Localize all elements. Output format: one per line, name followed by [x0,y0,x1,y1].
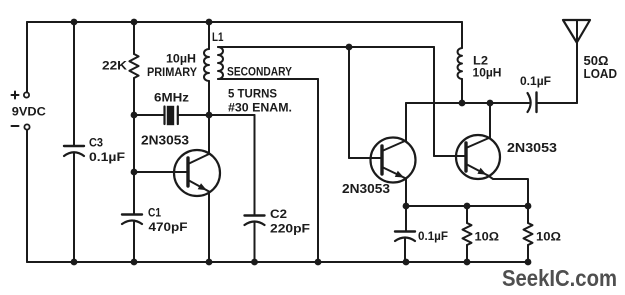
capacitor C4 0.1uF coupling [528,93,531,112]
junction top rail L1 [206,19,213,26]
junction top rail C3 [71,19,78,26]
svg-text:0.1µF: 0.1µF [520,74,551,88]
junction ground Q1 emitter [206,259,213,266]
junction ground C3 [71,259,78,266]
wire secondary bottom return [218,78,318,80]
svg-text:6MHz: 6MHz [154,91,189,105]
junction ground C5 [403,259,410,266]
svg-text:50Ω: 50Ω [584,54,609,68]
svg-text:470pF: 470pF [149,220,188,234]
junction ground 10 ohm second [525,259,532,266]
battery negative terminal [24,124,29,129]
wire left vertical from - terminal to ground rail [26,130,28,262]
wire collector node to C2 [209,114,255,116]
junction ground C2 [251,259,258,266]
capacitor C1 [122,213,142,215]
resistor 10 ohm second [527,206,529,223]
wire Q2 base feed [348,47,350,158]
transistor Q2 2N3053 [371,138,416,183]
wire top supply rail [27,21,462,23]
svg-text:10µH: 10µH [166,52,196,66]
junction crystal right collector node [206,112,213,119]
capacitor C5 0.1uF emitter bypass [405,206,407,231]
crystal 6MHz [134,114,165,116]
wire emitter rail [406,205,528,207]
junction ground 10 ohm first [464,259,471,266]
svg-text:9VDC: 9VDC [12,105,46,119]
wire bottom ground rail [27,261,528,263]
svg-text:2N3053: 2N3053 [141,134,189,148]
junction emitter rail middle [464,203,471,210]
capacitor C3 [73,22,75,146]
junction secondary top Q2 base [346,44,353,51]
junction top rail 22K [131,19,138,26]
wire Q3 base feed [433,47,435,156]
junction L2 bottom [459,100,466,107]
svg-text:C1: C1 [148,206,161,220]
junction Q1 base [131,169,138,176]
svg-text:10Ω: 10Ω [536,230,561,244]
wire left vertical to + terminal [26,22,28,92]
svg-text:SeekIC.com: SeekIC.com [502,265,617,291]
junction ground C1 [131,259,138,266]
wire secondary top to driver bases [218,46,434,48]
inductor L2 [461,22,463,48]
resistor 10 ohm first [466,206,468,223]
transformer L1 secondary winding [218,47,223,79]
svg-text:0.1µF: 0.1µF [89,150,125,164]
svg-text:C3: C3 [89,136,103,150]
junction emitter rail left [403,203,410,210]
svg-text:10µH: 10µH [473,66,502,80]
svg-text:2N3053: 2N3053 [507,141,557,155]
svg-text:2N3053: 2N3053 [342,182,390,196]
svg-text:LOAD: LOAD [584,67,618,81]
svg-text:SECONDARY: SECONDARY [227,65,292,79]
svg-text:#30 ENAM.: #30 ENAM. [228,101,292,115]
svg-text:PRIMARY: PRIMARY [147,65,197,79]
svg-text:10Ω: 10Ω [475,230,500,244]
wire output rail [406,102,529,104]
resistor 22K [133,22,135,54]
antenna [576,20,578,103]
transistor Q3 2N3053 [456,135,500,179]
svg-text:L1: L1 [212,30,224,44]
svg-text:5 TURNS: 5 TURNS [228,87,277,101]
battery positive terminal [24,92,29,97]
svg-text:220pF: 220pF [270,222,310,236]
junction crystal left [131,112,138,119]
transformer L1 primary winding [208,22,210,49]
svg-text:C2: C2 [270,207,287,221]
junction ground secondary return [315,259,322,266]
capacitor C2 [245,214,265,216]
transistor Q1 2N3053 [174,150,220,196]
svg-text:0.1µF: 0.1µF [418,229,448,243]
junction Q3 collector [487,100,494,107]
junction emitter rail right [525,203,532,210]
svg-text:22K: 22K [102,59,127,73]
